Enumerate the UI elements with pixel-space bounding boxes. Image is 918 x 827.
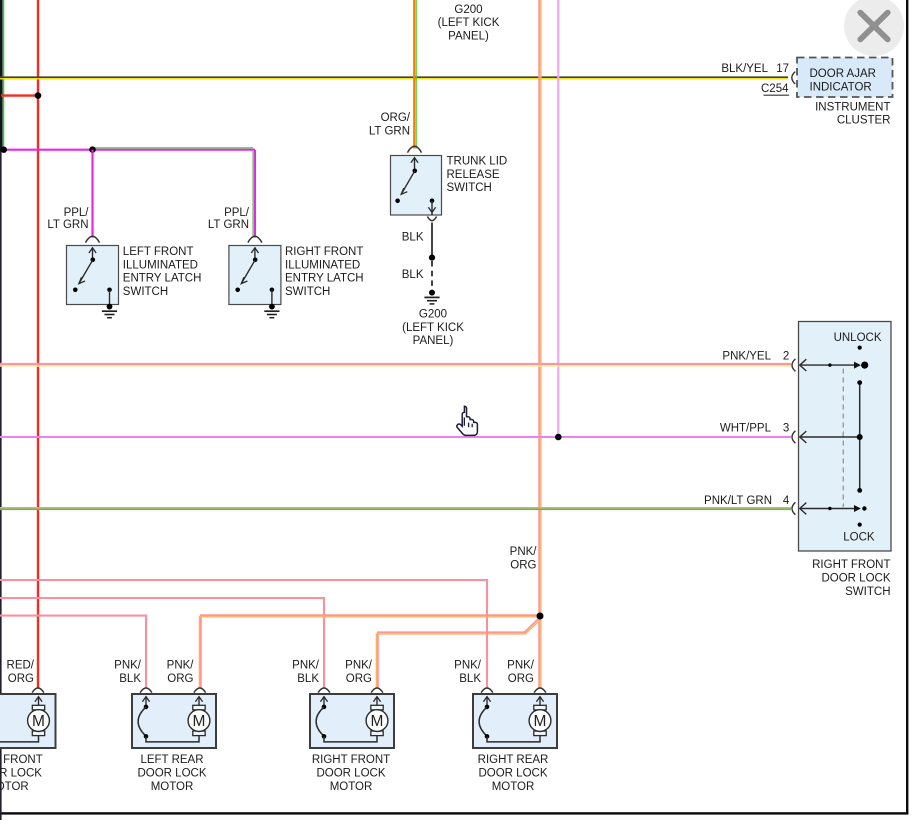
svg-text:BLK/YEL: BLK/YEL bbox=[721, 63, 768, 75]
wire PNK/LT GRN horizontal bbox=[0, 507, 791, 509]
svg-text:DOOR AJAR: DOOR AJAR bbox=[810, 68, 876, 80]
switch RIGHT FRONT ILLUMINATED ENTRY LATCH bbox=[229, 246, 281, 305]
dashed travel line bbox=[842, 369, 844, 508]
svg-text:PANEL): PANEL) bbox=[413, 335, 454, 347]
ground G200 trunk bbox=[429, 290, 435, 296]
svg-text:MOTOR: MOTOR bbox=[151, 781, 194, 793]
motor LEFT FRONT DOOR LOCK bbox=[0, 694, 56, 748]
switch LEFT FRONT ILLUMINATED ENTRY LATCH bbox=[67, 246, 119, 305]
svg-text:PNK/: PNK/ bbox=[114, 660, 142, 672]
svg-text:DOOR LOCK: DOOR LOCK bbox=[0, 768, 42, 780]
wire PNK/BLK to right front motor bbox=[0, 598, 324, 688]
svg-text:RIGHT REAR: RIGHT REAR bbox=[478, 754, 549, 766]
wire WHT/PPL vertical bbox=[557, 0, 559, 437]
svg-text:PNK/YEL: PNK/YEL bbox=[722, 351, 771, 363]
svg-text:BLK: BLK bbox=[402, 269, 424, 281]
connector pin 2 bbox=[792, 359, 795, 371]
wire LT GRN stripe on PPL horizontal bbox=[93, 147, 254, 149]
connector pin 3 bbox=[792, 431, 795, 443]
svg-text:DOOR LOCK: DOOR LOCK bbox=[821, 573, 890, 585]
svg-text:ORG: ORG bbox=[346, 673, 372, 685]
svg-text:M: M bbox=[32, 713, 45, 730]
svg-text:C254: C254 bbox=[761, 83, 789, 95]
page frame right border bbox=[906, 0, 908, 814]
cut-off component edge left top bbox=[0, 0, 3, 151]
svg-text:PPL/: PPL/ bbox=[224, 207, 250, 219]
svg-text:ORG/: ORG/ bbox=[381, 112, 411, 124]
junction dot WHT/PPL bbox=[555, 434, 562, 441]
svg-text:G200: G200 bbox=[419, 309, 447, 321]
wire ORG/LT GRN vertical to trunk lid release switch bbox=[413, 0, 415, 149]
connector pin 4 bbox=[792, 502, 795, 514]
svg-text:3: 3 bbox=[783, 423, 789, 435]
contact bar vertical bbox=[859, 383, 861, 491]
svg-text:INDICATOR: INDICATOR bbox=[810, 82, 872, 94]
svg-text:ENTRY LATCH: ENTRY LATCH bbox=[285, 273, 364, 285]
close button bbox=[844, 0, 904, 56]
mouse hand cursor bbox=[457, 406, 477, 435]
svg-text:G200: G200 bbox=[454, 4, 482, 16]
wire BLK solid from trunk switch bbox=[431, 223, 433, 258]
svg-text:SWITCH: SWITCH bbox=[123, 286, 168, 298]
svg-text:LEFT REAR: LEFT REAR bbox=[140, 754, 203, 766]
svg-text:17: 17 bbox=[776, 63, 789, 75]
svg-text:RED/: RED/ bbox=[7, 660, 35, 672]
svg-text:BLK: BLK bbox=[459, 673, 481, 685]
motor RIGHT FRONT DOOR LOCK bbox=[310, 694, 394, 748]
junction dot PNK/ORG bbox=[537, 613, 544, 620]
svg-text:ORG: ORG bbox=[508, 673, 534, 685]
wire PPL/LT GRN drop to right front latch switch bbox=[254, 150, 256, 238]
switch TRUNK LID RELEASE bbox=[391, 156, 442, 216]
svg-text:PANEL): PANEL) bbox=[448, 30, 489, 42]
svg-text:ENTRY LATCH: ENTRY LATCH bbox=[123, 273, 202, 285]
connector arc right front motor pin2 bbox=[371, 688, 383, 693]
svg-text:ORG: ORG bbox=[167, 673, 193, 685]
connector arc left latch entry bbox=[86, 236, 100, 242]
connector C254 bbox=[792, 72, 795, 84]
switch row pin2 bbox=[800, 364, 855, 366]
switch row pin3 bbox=[800, 436, 859, 438]
connector arc trunk switch exit bbox=[427, 217, 436, 221]
svg-text:RIGHT FRONT: RIGHT FRONT bbox=[312, 754, 390, 766]
switch row pin4 bbox=[800, 508, 855, 510]
svg-text:MOTOR: MOTOR bbox=[330, 781, 373, 793]
wire PPL horizontal bbox=[4, 149, 256, 151]
switch RIGHT FRONT DOOR LOCK body bbox=[799, 322, 892, 552]
contact dot unlock bbox=[858, 346, 862, 350]
connector arc trunk switch entry bbox=[408, 146, 422, 152]
svg-text:M: M bbox=[534, 713, 547, 730]
svg-text:LT GRN: LT GRN bbox=[369, 126, 410, 138]
motor LEFT REAR DOOR LOCK bbox=[132, 694, 216, 748]
svg-text:TRUNK LID: TRUNK LID bbox=[447, 156, 508, 168]
motor RIGHT REAR DOOR LOCK bbox=[473, 694, 557, 748]
svg-text:PNK/: PNK/ bbox=[507, 660, 535, 672]
contact dot lock bbox=[858, 523, 862, 527]
svg-text:2: 2 bbox=[783, 351, 789, 363]
junction dot red stub bbox=[35, 92, 42, 99]
svg-text:WHT/PPL: WHT/PPL bbox=[720, 423, 772, 435]
svg-text:SWITCH: SWITCH bbox=[845, 586, 890, 598]
svg-text:UNLOCK: UNLOCK bbox=[834, 332, 882, 344]
svg-text:LEFT FRONT: LEFT FRONT bbox=[0, 754, 43, 766]
svg-text:PNK/: PNK/ bbox=[510, 546, 538, 558]
svg-text:MOTOR: MOTOR bbox=[492, 781, 535, 793]
connector arc left front motor bbox=[32, 688, 44, 693]
svg-text:ORG: ORG bbox=[8, 673, 34, 685]
svg-text:PNK/: PNK/ bbox=[345, 660, 373, 672]
wire PNK/BLK to left rear motor bbox=[0, 616, 146, 688]
connector arc right rear motor pin2 bbox=[534, 688, 546, 693]
svg-text:MOTOR: MOTOR bbox=[0, 781, 29, 793]
svg-text:DOOR LOCK: DOOR LOCK bbox=[137, 768, 206, 780]
svg-text:SWITCH: SWITCH bbox=[285, 286, 330, 298]
wire LT GRN vertical at left edge bbox=[3, 0, 5, 150]
connector arc right front motor pin1 bbox=[318, 688, 330, 693]
svg-text:PPL/: PPL/ bbox=[64, 207, 90, 219]
wire PNK/YEL horizontal bbox=[0, 363, 791, 365]
wire PNK/ORG branch to left rear motor bbox=[201, 615, 537, 687]
svg-text:M: M bbox=[193, 713, 206, 730]
wire BLK/YEL horizontal to instrument cluster bbox=[0, 76, 788, 78]
wire WHT/PPL horizontal bbox=[0, 436, 791, 438]
page frame left edge line bbox=[0, 0, 2, 820]
svg-text:PNK/: PNK/ bbox=[292, 660, 320, 672]
connector arc right rear motor pin1 bbox=[481, 688, 493, 693]
page frame bottom border bbox=[0, 812, 908, 814]
svg-text:BLK: BLK bbox=[402, 232, 424, 244]
connector arc right latch entry bbox=[248, 236, 262, 242]
connector arc left rear motor pin2 bbox=[194, 688, 206, 693]
svg-text:PNK/: PNK/ bbox=[454, 660, 482, 672]
svg-text:LOCK: LOCK bbox=[843, 531, 875, 543]
svg-text:RIGHT FRONT: RIGHT FRONT bbox=[285, 246, 363, 258]
svg-text:LEFT FRONT: LEFT FRONT bbox=[123, 246, 194, 258]
junction dot PPL branch bbox=[89, 146, 96, 153]
wire PPL/LT GRN drop to left front latch switch bbox=[91, 150, 93, 238]
wire BLK dashed to ground bbox=[431, 261, 433, 287]
svg-text:ILLUMINATED: ILLUMINATED bbox=[123, 259, 198, 271]
svg-text:SWITCH: SWITCH bbox=[447, 182, 492, 194]
svg-text:PNK/: PNK/ bbox=[167, 660, 195, 672]
wire RED horizontal stub at left bbox=[1, 94, 38, 96]
connector arc left rear motor pin1 bbox=[140, 688, 152, 693]
svg-text:RELEASE: RELEASE bbox=[447, 169, 500, 181]
svg-text:(LEFT KICK: (LEFT KICK bbox=[402, 322, 464, 334]
svg-text:DOOR LOCK: DOOR LOCK bbox=[478, 768, 547, 780]
wire PNK/BLK to right rear motor bbox=[0, 580, 487, 688]
component DOOR AJAR INDICATOR bbox=[797, 58, 893, 98]
wire PNK/ORG vertical trunk area bbox=[538, 0, 540, 688]
svg-text:BLK: BLK bbox=[297, 673, 319, 685]
svg-text:RIGHT FRONT: RIGHT FRONT bbox=[812, 559, 890, 571]
svg-text:PNK/LT GRN: PNK/LT GRN bbox=[704, 495, 772, 507]
svg-text:INSTRUMENT: INSTRUMENT bbox=[815, 102, 890, 114]
svg-text:4: 4 bbox=[783, 495, 790, 507]
wire PNK/ORG jog to right front motor bbox=[378, 619, 539, 688]
svg-text:DOOR LOCK: DOOR LOCK bbox=[316, 768, 385, 780]
svg-text:(LEFT KICK: (LEFT KICK bbox=[438, 17, 500, 29]
junction dot BLK splice bbox=[429, 255, 435, 261]
svg-text:ILLUMINATED: ILLUMINATED bbox=[285, 259, 360, 271]
svg-text:M: M bbox=[371, 713, 384, 730]
junction dot PPL at left edge bbox=[1, 147, 7, 153]
svg-text:ORG: ORG bbox=[510, 559, 536, 571]
svg-text:BLK: BLK bbox=[119, 673, 141, 685]
svg-text:CLUSTER: CLUSTER bbox=[837, 115, 891, 127]
wire RED/ORG vertical to left front motor bbox=[37, 0, 39, 688]
svg-text:LT GRN: LT GRN bbox=[208, 219, 249, 231]
svg-text:LT GRN: LT GRN bbox=[47, 219, 88, 231]
